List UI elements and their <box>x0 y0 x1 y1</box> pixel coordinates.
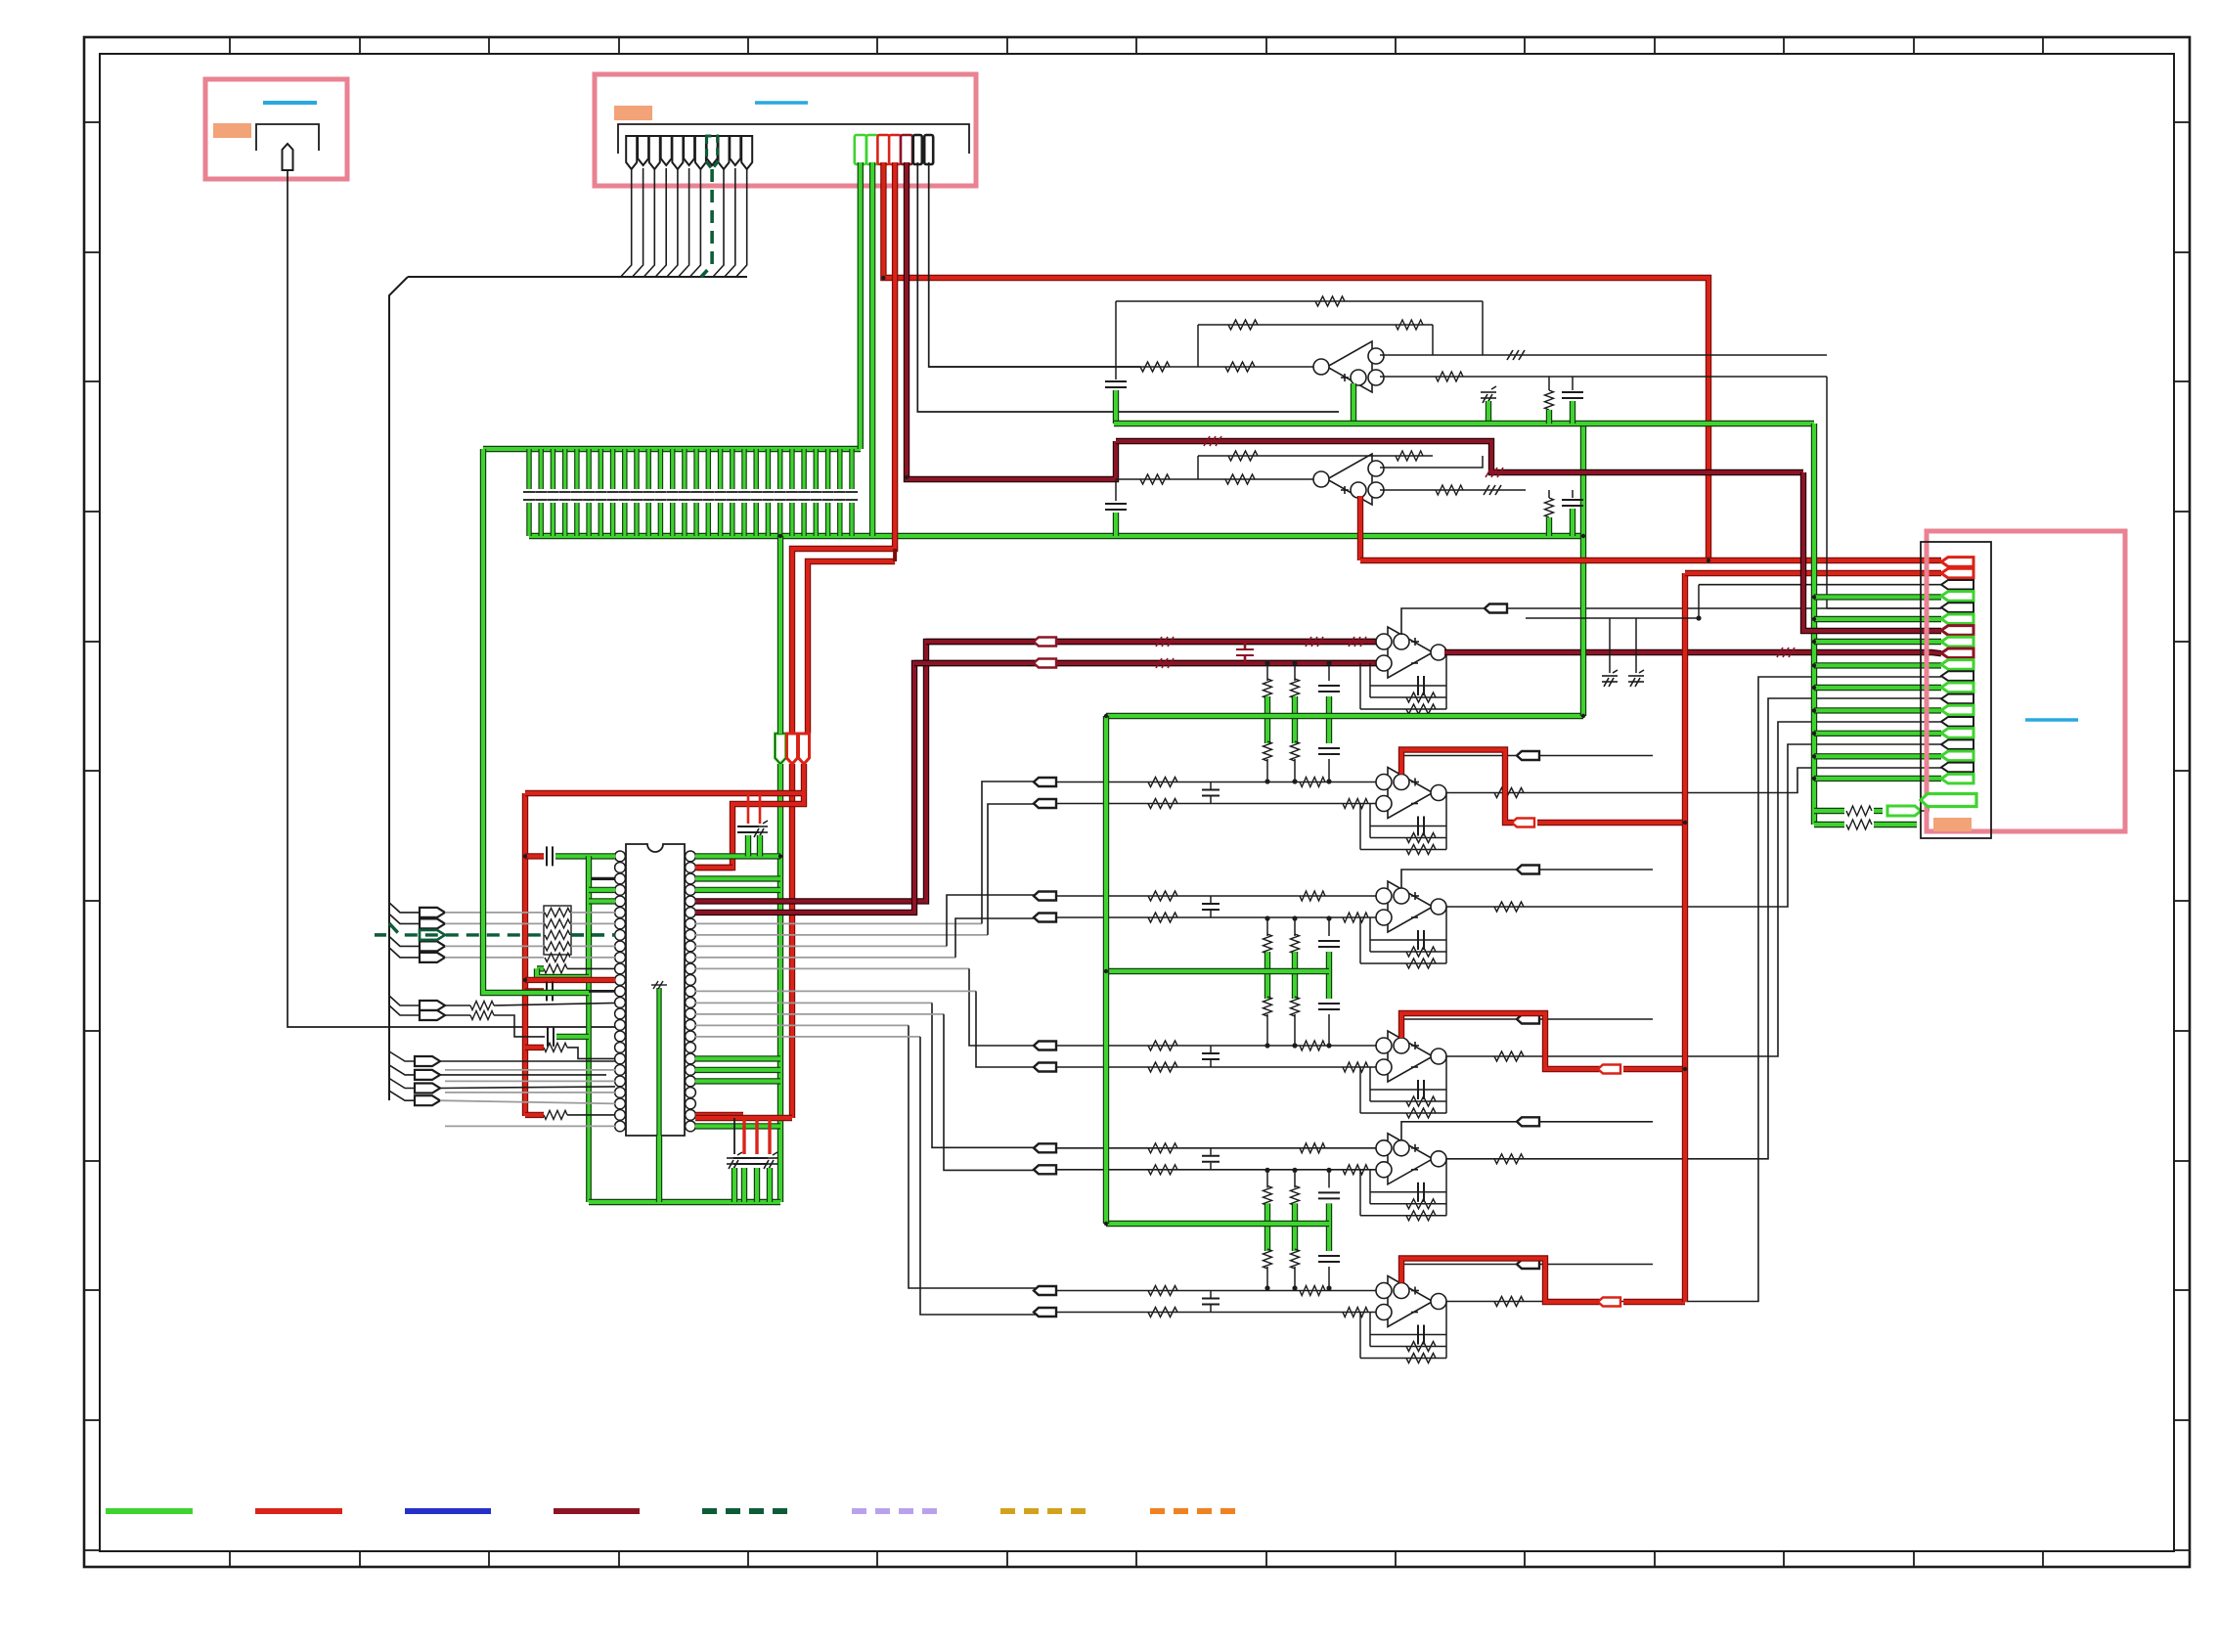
J2 pin 7 <box>695 136 706 169</box>
U3 output maroon <box>1444 652 1941 653</box>
legend swatch blue <box>405 1508 491 1514</box>
branch leg 3 at bus y=1251 <box>1328 1170 1330 1187</box>
U6 red loop <box>1401 1013 1600 1069</box>
J3 pin 7 <box>1941 626 1974 636</box>
J2 pin 8 dashed-net highlight <box>707 136 718 169</box>
resistor <box>1148 1165 1177 1175</box>
J2 pin 2 <box>638 136 648 165</box>
U1 right green rows <box>695 1055 780 1061</box>
U7 aux wire <box>1401 1122 1653 1140</box>
wire U1 pinR25 green stub <box>695 1123 780 1129</box>
resistor <box>1300 1143 1325 1153</box>
wire U4 inB <box>1056 803 1383 805</box>
feedback network U5 <box>1445 907 1447 963</box>
red link rail <box>525 790 804 796</box>
wire to J3 pin3 <box>1699 584 1941 586</box>
J2 pin 13 <box>866 135 878 164</box>
wire U1 pinR6 maroon to stage U3 <box>695 663 1383 913</box>
U2b plus row <box>1380 489 1526 491</box>
cap to bus <box>1115 367 1117 380</box>
resistor <box>1343 913 1368 922</box>
connector pin X3-4 <box>415 1095 440 1105</box>
U2a input wire <box>929 366 1327 368</box>
decoupling capacitor CB4 <box>768 1118 771 1154</box>
inline connector U6 A <box>1034 1042 1056 1050</box>
wire U1 to stage input 10 <box>695 1036 920 1038</box>
J2 pin 10 <box>730 136 740 165</box>
resistor <box>1140 362 1170 372</box>
J1 label block <box>213 123 251 138</box>
J1 body bracket <box>256 124 319 151</box>
U8 red loop <box>1401 1259 1600 1303</box>
inline connector U8 A <box>1034 1286 1056 1295</box>
resistor <box>1343 1308 1368 1317</box>
green trunk to J3 <box>1811 424 1817 825</box>
J3 pin 13 <box>1941 694 1974 704</box>
J3 pin 19 <box>1941 763 1974 773</box>
J2 pin 15 <box>889 135 901 164</box>
green stub to J3 at 703.0 <box>1814 685 1941 691</box>
connector pin X3-2 <box>415 1070 440 1080</box>
J2 body bracket <box>618 124 969 154</box>
green stub to J3 at 749.8 <box>1814 731 1941 737</box>
wire U1 row <box>445 1092 615 1094</box>
U2a network <box>1116 300 1483 302</box>
wire net VCC2a red branch <box>808 561 895 734</box>
cap bank bottom bus <box>529 533 1583 539</box>
resistor <box>1225 362 1255 372</box>
wire J2 pin 11 <box>736 168 747 277</box>
feedback network U7 <box>1445 1159 1447 1216</box>
wire U1 pin4 green <box>589 887 615 893</box>
J2 pin 4 <box>661 136 672 165</box>
U2b input wire <box>1116 478 1327 480</box>
resistor R7 <box>525 1112 544 1118</box>
green stub to J3 at 773.3 <box>1814 753 1941 759</box>
resistor <box>1148 913 1177 922</box>
junction dots <box>1707 558 1710 562</box>
U6 aux wire <box>1401 1019 1653 1038</box>
inline connector P4 <box>1034 638 1056 647</box>
branch leg 1 at bus y=1251 <box>1266 1170 1268 1187</box>
resistor <box>1300 891 1325 901</box>
wire net AGND1 green <box>858 162 864 449</box>
harness vertical bus <box>389 277 408 1100</box>
resistor <box>1300 1041 1325 1050</box>
RC stubs on bus2 <box>1545 498 1554 517</box>
black service wires right <box>1826 377 1828 608</box>
J3 pin 10 <box>1941 660 1974 670</box>
U2b red stub down <box>1357 496 1363 560</box>
J2 harness bus <box>408 276 747 278</box>
connector pin X1-5 <box>420 953 445 962</box>
IC U1 body <box>626 844 685 1136</box>
dashed net DASH1 row <box>375 933 389 937</box>
J3 pin 18 <box>1941 751 1974 761</box>
maroon to J3 pin7 <box>1803 472 1941 631</box>
resistor R4 <box>470 1002 494 1010</box>
wire U8 inA <box>1056 1290 1383 1292</box>
U4 red loop <box>1401 750 1514 824</box>
red net to J3 pin1 <box>1360 558 1941 563</box>
connector pin X1-1 <box>420 908 445 917</box>
op-amp U6 <box>1376 1031 1446 1082</box>
wire U1 pin5 green <box>589 898 615 904</box>
wire U1 pinR4 green <box>695 887 780 893</box>
U2b network <box>1198 455 1433 457</box>
wire U1 pinR1 green <box>695 853 780 859</box>
U3 aux wire <box>1401 608 1941 635</box>
J2 pin 14 <box>877 135 889 164</box>
connector J2 box <box>595 74 976 186</box>
green resistor wires bottom right <box>1814 808 1844 814</box>
green bus 3 <box>1106 1221 1329 1227</box>
green bus 2 <box>1106 968 1329 974</box>
J3 pin 11 <box>1941 671 1974 681</box>
U8 output <box>1446 677 1941 1302</box>
resistor R6 <box>525 1045 544 1050</box>
feedback network U3 <box>1445 652 1447 709</box>
capacitor CU7 <box>1202 1156 1220 1162</box>
U1 pins left/right <box>615 851 696 1132</box>
green return loop under U1 <box>589 1199 780 1205</box>
wire U4 inA <box>1056 781 1383 783</box>
branch leg 1 at bus y=993 <box>1266 918 1268 936</box>
capacitor CU4 <box>1202 790 1220 796</box>
wire U1 to stage input 4 <box>695 957 955 959</box>
red vertical collector <box>1682 573 1688 1302</box>
inline connector red <box>1512 819 1534 827</box>
J1 pin 1 <box>283 144 293 170</box>
wire U1 to stage input 9 <box>695 1024 909 1026</box>
wire net VBB maroon <box>907 162 1116 479</box>
resistor <box>1148 799 1177 809</box>
U4 aux wire <box>1401 756 1653 775</box>
wire net AGND main green <box>483 449 589 993</box>
J3 pin 20 <box>1941 774 1974 783</box>
resistor R5 <box>470 1011 494 1020</box>
wire U1 to stage input 3 <box>695 945 947 947</box>
wire dashed net DASH1 from J2 pin 8 <box>701 169 712 277</box>
branch leg 3 at bus y=993 <box>1328 918 1330 936</box>
wire U7 inB <box>1056 1169 1383 1171</box>
op-amp U2a <box>1313 341 1384 392</box>
J3 pin 3 <box>1941 580 1974 590</box>
inline connector U5 A <box>1034 892 1056 901</box>
resistor RN1:4 <box>545 942 570 951</box>
branch leg 2 at bus y=993 <box>1294 918 1296 936</box>
J3 pin 4 <box>1941 592 1974 602</box>
wire net AGND2 green <box>869 162 875 536</box>
J1 title line <box>263 101 317 105</box>
resistor <box>1300 778 1325 787</box>
decoupling capacitor CB3 <box>755 1118 758 1154</box>
J2 pin 1 <box>626 136 637 169</box>
wire U1 to stage input 6 <box>695 990 976 992</box>
green trunk vertical mid <box>1103 716 1109 1224</box>
green bus to J3 <box>1114 421 1814 426</box>
legend swatch dark-red <box>554 1508 640 1514</box>
capacitor CS3 <box>1236 649 1254 655</box>
branch leg 1 at bus y=732 <box>1266 663 1268 681</box>
legend swatch dashed dark-green <box>702 1508 789 1514</box>
U7 output <box>1446 698 1941 1159</box>
connector pin X3-3 <box>415 1084 440 1094</box>
wire U8 inB <box>1056 1312 1383 1314</box>
wire J2 pin 9 <box>713 168 724 277</box>
U4 output <box>1446 768 1941 793</box>
wire J2 pin 4 <box>655 168 666 277</box>
cap CM1 <box>1481 386 1496 403</box>
resistor RN1:1 <box>545 908 570 916</box>
red feed through P2 <box>789 764 795 1118</box>
green rail lower half <box>586 977 592 1202</box>
connector J1 box <box>205 79 347 179</box>
wire J2 pin 7 <box>689 168 700 277</box>
red rail VDD vertical <box>522 793 528 1116</box>
inline connector P3 red <box>799 734 810 764</box>
green stub to J3 at 680.4 <box>1814 662 1941 668</box>
capacitor CU6 <box>1202 1053 1220 1059</box>
J3 pin 5 <box>1941 603 1974 612</box>
resistor <box>1148 1286 1177 1296</box>
wire U1 pin3 <box>589 877 615 880</box>
inline connector U7 B <box>1034 1165 1056 1174</box>
J2 pin 11 <box>741 136 752 169</box>
branch leg 2 at bus y=732 <box>1294 663 1296 681</box>
legend swatch green <box>106 1508 193 1514</box>
feedback network U4 <box>1445 793 1447 850</box>
wire U1 pinR24 red stub <box>695 1112 743 1118</box>
connector pin X2-1 <box>420 1001 445 1010</box>
J3 label block <box>1933 818 1972 831</box>
J3 body rect <box>1921 542 1991 838</box>
op-amp U8 <box>1376 1276 1446 1327</box>
J3 pin 14 <box>1941 705 1974 715</box>
U2a plus row <box>1380 376 1827 378</box>
inline connector U7 A <box>1034 1143 1056 1152</box>
connector J3 box <box>1927 531 2125 831</box>
U6 output <box>1446 722 1941 1056</box>
wire U1 to stage input 2 <box>695 934 988 936</box>
wire U5 inA <box>1056 895 1383 897</box>
decoupling capacitor CB2 <box>742 1118 745 1154</box>
U5 aux wire <box>1401 870 1653 888</box>
inline connector P1 green <box>776 734 786 764</box>
wire U1 to stage input 7 <box>695 1002 932 1004</box>
resistor <box>1148 778 1177 787</box>
wire U1 pinR5 maroon to stage U3 <box>695 642 1383 901</box>
wire J1 pin1 to U1 <box>288 170 619 1027</box>
connector pin X2-2 <box>420 1010 445 1020</box>
inline connector red <box>1598 1065 1620 1074</box>
resistor <box>1148 1308 1177 1317</box>
wire J2 pin 5 <box>667 168 678 277</box>
J2 pin 6 <box>684 136 694 165</box>
resistor <box>1148 1041 1177 1050</box>
green stub to J3 at 726.4 <box>1814 707 1941 713</box>
op-amp U4 <box>1376 768 1446 819</box>
connector pin X1-4 <box>420 941 445 951</box>
wire J2 pin18 to U2 input <box>929 162 1140 367</box>
J2 pin 12 <box>855 135 866 164</box>
wire VDD to U1 pin12 <box>525 977 615 983</box>
wire U1 to stage input 1 <box>695 922 982 924</box>
red feed through P3 <box>697 764 804 868</box>
resistor <box>1300 1286 1325 1296</box>
cap bank top bus <box>483 446 861 452</box>
green stub to J3 at 795.9 <box>1814 776 1941 781</box>
wire U7 inA <box>1056 1147 1383 1149</box>
connector pin X3-1 <box>415 1056 440 1066</box>
stage U3 maroon input wires <box>926 639 1383 645</box>
legend swatch dashed orange <box>1150 1508 1237 1514</box>
J2 pin 3 <box>649 136 660 169</box>
U2a green stub <box>1351 383 1356 424</box>
feedback network U6 <box>1445 1056 1447 1113</box>
J2 pin 16 <box>901 135 912 164</box>
cap CG1 <box>1602 670 1618 687</box>
inline connector P5 <box>1034 659 1056 668</box>
inline connector U5 B <box>1034 914 1056 922</box>
wire VDD to U1 pin1 via C1 <box>525 853 544 859</box>
resistor RN1:2 <box>545 919 570 928</box>
resistor RN1:3 <box>545 930 570 939</box>
green stub to J3 at 610.4 <box>1814 594 1941 600</box>
J3 pin 21 <box>1921 794 1976 807</box>
red rail bottom of U1 <box>695 1115 792 1121</box>
inline connector P2 red <box>787 734 798 764</box>
green stub to J3 at 656.0 <box>1814 639 1941 645</box>
wire U1 to stage input 8 <box>695 1013 944 1015</box>
resistor R3 with green link <box>537 965 544 971</box>
J3 pin 17 <box>1941 739 1974 749</box>
wire U1 row <box>445 1125 615 1127</box>
green rail at U1 left <box>586 856 592 977</box>
red to J3 pin2 <box>1685 570 1941 576</box>
wire U1 pinR2 red <box>695 865 732 871</box>
op-amp U5 <box>1376 881 1446 932</box>
J2 pin 17 <box>913 135 922 164</box>
X1-3 dashed highlight <box>420 930 445 940</box>
U1 internal green stub <box>656 988 661 1136</box>
inline connector red <box>1598 1298 1620 1307</box>
J3 pin 2 <box>1941 568 1974 578</box>
capacitor C2 <box>525 988 544 994</box>
resistor <box>1148 1062 1177 1072</box>
capacitor bank C-array <box>523 449 858 536</box>
resistor <box>1148 1143 1177 1153</box>
J3 pin 1 <box>1941 558 1974 567</box>
decoupling capacitor CB1 <box>733 1118 735 1154</box>
resistor R2 <box>545 953 570 961</box>
U5 output <box>1446 744 1941 907</box>
resistor <box>1343 1165 1368 1175</box>
J2 title line <box>755 101 808 105</box>
wire U6 inA <box>1056 1045 1383 1047</box>
resistor <box>1343 799 1368 809</box>
green trunk vertical right <box>1580 424 1586 716</box>
decoupling caps CD1 CD2 <box>747 793 750 824</box>
wire J2 pin 1 <box>621 168 632 277</box>
wire J2 pin 10 <box>725 168 735 277</box>
green stub to J3 at 633.0 <box>1814 616 1941 622</box>
U2b cap to bus <box>1115 479 1117 501</box>
J3 pin 8 <box>1941 637 1974 647</box>
resistor <box>1343 1062 1368 1072</box>
wire U1 pinR3 green <box>695 875 780 881</box>
feedback network U8 <box>1445 1302 1447 1359</box>
J3 pin 6 <box>1941 614 1974 624</box>
J2 pin 8 <box>707 136 718 165</box>
cap CG2 <box>1628 670 1644 687</box>
J3 title line <box>2025 718 2078 722</box>
branch leg 2 at bus y=1251 <box>1294 1170 1296 1187</box>
J2 label block <box>614 106 652 120</box>
capacitor C1 <box>547 846 553 866</box>
wire J2 pin 2 <box>633 168 643 277</box>
capacitor CU8 <box>1202 1299 1220 1305</box>
inline connector U4 A <box>1034 778 1056 786</box>
J2 pin 18 <box>924 135 933 164</box>
connector pin X1-2 <box>420 918 445 928</box>
capacitor CU5 <box>1202 904 1220 910</box>
wire J2 pin 3 <box>643 168 654 277</box>
wire U1 row <box>445 1080 615 1082</box>
wire U1 row <box>445 1069 615 1071</box>
J3 pin 15 <box>1941 717 1974 727</box>
resistor <box>1148 891 1177 901</box>
resistor network RN1 box <box>544 906 571 955</box>
wire to J3 pin5 <box>1827 607 1941 609</box>
J3 pin 16 <box>1941 729 1974 738</box>
J3 pin 9 <box>1941 648 1974 658</box>
wire J2 pin17 to U2 stage <box>917 162 1339 412</box>
inline connector U4 B <box>1034 799 1056 808</box>
inline connector U6 B <box>1034 1063 1056 1072</box>
wire U1 to stage input 5 <box>695 967 969 969</box>
branch leg 3 at bus y=732 <box>1328 663 1330 681</box>
legend swatch dashed gold <box>1000 1508 1087 1514</box>
wire net VCC1 red <box>883 162 1708 560</box>
op-amp U2b <box>1313 454 1384 505</box>
J3 pin 12 <box>1941 683 1974 692</box>
wire net VCC2 red <box>792 162 895 734</box>
green bus 1 <box>1106 713 1583 719</box>
J2 pin 5 <box>672 136 683 169</box>
U2a minus row <box>1380 354 1827 356</box>
RC stubs on bus <box>1545 390 1554 410</box>
U8 aux wire <box>1401 1265 1653 1283</box>
connector pin X1-3 <box>420 930 445 940</box>
capacitor C3 <box>548 1027 554 1047</box>
inline connector U8 B <box>1034 1308 1056 1317</box>
wire U6 inB <box>1056 1066 1383 1068</box>
op-amp U3 <box>1376 627 1446 678</box>
legend swatch red <box>255 1508 342 1514</box>
U2b maroon rail <box>1116 441 1803 472</box>
legend swatch dashed purple <box>852 1508 939 1514</box>
op-amp U7 <box>1376 1134 1446 1184</box>
wire J2 pin 6 <box>679 168 689 277</box>
wire U5 inB <box>1056 916 1383 918</box>
J2 pin 9 <box>719 136 730 169</box>
green feed through P1 <box>777 536 783 734</box>
